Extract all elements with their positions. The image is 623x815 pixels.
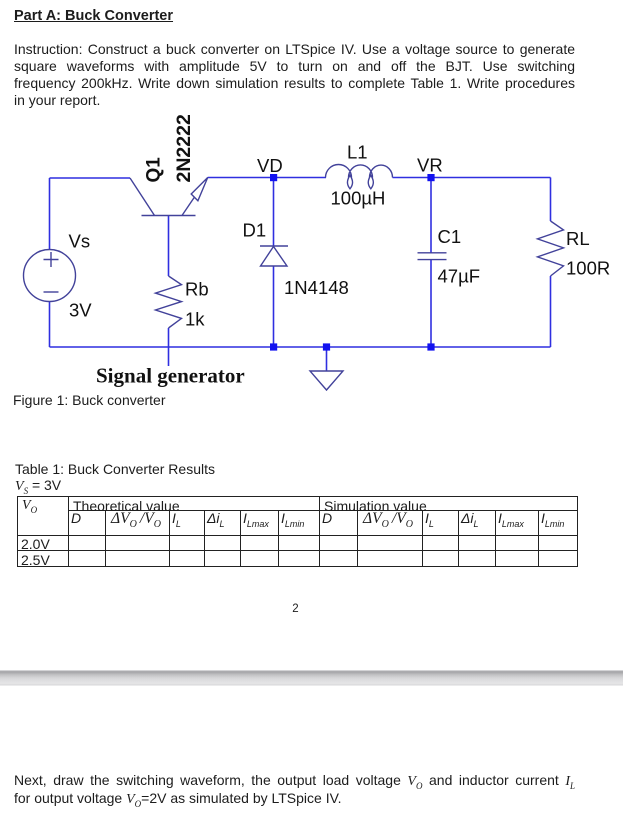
svg-text:2N2222: 2N2222 bbox=[173, 114, 195, 182]
title bbox=[14, 8, 173, 24]
wire C1 bottom lead bbox=[430, 260, 432, 348]
wire RL top lead bbox=[550, 178, 552, 222]
svg-text:L1: L1 bbox=[347, 142, 368, 163]
transistor Q1 emitter arrowhead bbox=[191, 178, 208, 201]
minus sign bbox=[44, 291, 59, 293]
inductor L1 windings bbox=[326, 165, 393, 178]
svg-text:Vs: Vs bbox=[69, 231, 91, 252]
plus sign bbox=[44, 252, 59, 267]
wire ground stem bbox=[326, 347, 328, 371]
circuit schematic bbox=[0, 0, 623, 430]
diode D1 cathode bar bbox=[260, 245, 288, 247]
inductor L1 loop 1 bbox=[347, 175, 352, 189]
wire top-left horizontal bbox=[50, 177, 131, 179]
table 1 bbox=[17, 496, 578, 567]
ground symbol bbox=[310, 371, 343, 390]
capacitor C1 plates bbox=[418, 253, 447, 260]
svg-text:RL: RL bbox=[566, 228, 590, 249]
page break band bbox=[0, 670, 623, 686]
svg-text:100R: 100R bbox=[566, 258, 610, 279]
svg-text:1N4148: 1N4148 bbox=[284, 277, 349, 298]
svg-text:D1: D1 bbox=[243, 220, 267, 241]
wire C1 top lead bbox=[430, 178, 432, 253]
svg-text:47µF: 47µF bbox=[438, 266, 481, 287]
svg-text:C1: C1 bbox=[438, 226, 462, 247]
wire Vs top lead bbox=[49, 178, 51, 250]
figure caption bbox=[13, 392, 166, 408]
instruction paragraph bbox=[14, 41, 575, 109]
inductor L1 loop 2 bbox=[368, 175, 373, 189]
diode D1 triangle bbox=[261, 247, 288, 267]
svg-text:Signal generator: Signal generator bbox=[96, 364, 245, 388]
svg-text:3V: 3V bbox=[69, 300, 92, 321]
transistor Q1 collector diagonal bbox=[130, 178, 155, 216]
junction rail C1 bbox=[427, 343, 434, 350]
wire D1 bottom lead bbox=[273, 266, 275, 347]
wire bottom rail bbox=[50, 346, 551, 348]
wire Vs bottom lead bbox=[49, 301, 51, 347]
bottom paragraph bbox=[14, 772, 575, 808]
node VR junction bbox=[427, 174, 434, 181]
transistor Q1 emitter diagonal bbox=[182, 178, 208, 216]
wire Rb bottom lead to signal generator bbox=[168, 328, 170, 366]
node VD junction bbox=[270, 174, 277, 181]
svg-text:Q1: Q1 bbox=[144, 157, 165, 183]
svg-text:100µH: 100µH bbox=[331, 188, 386, 209]
junction rail D1 bbox=[270, 343, 277, 350]
svg-text:Rb: Rb bbox=[185, 279, 209, 300]
resistor Rb zigzag bbox=[156, 276, 182, 328]
voltage source Vs circle bbox=[24, 250, 76, 302]
svg-text:VR: VR bbox=[417, 155, 443, 176]
resistor RL zigzag bbox=[538, 221, 564, 276]
junction rail ground bbox=[323, 343, 330, 350]
wire D1 top lead bbox=[273, 178, 275, 247]
wire Rb top lead bbox=[168, 216, 170, 277]
page number bbox=[0, 603, 591, 615]
wire L1 to RL top bbox=[393, 177, 551, 179]
svg-text:1k: 1k bbox=[185, 309, 205, 330]
wire collector top bbox=[208, 177, 326, 179]
table title bbox=[15, 461, 215, 477]
svg-text:VD: VD bbox=[257, 155, 283, 176]
transistor Q1 base bar bbox=[142, 215, 196, 217]
wire RL bottom lead bbox=[550, 276, 552, 347]
